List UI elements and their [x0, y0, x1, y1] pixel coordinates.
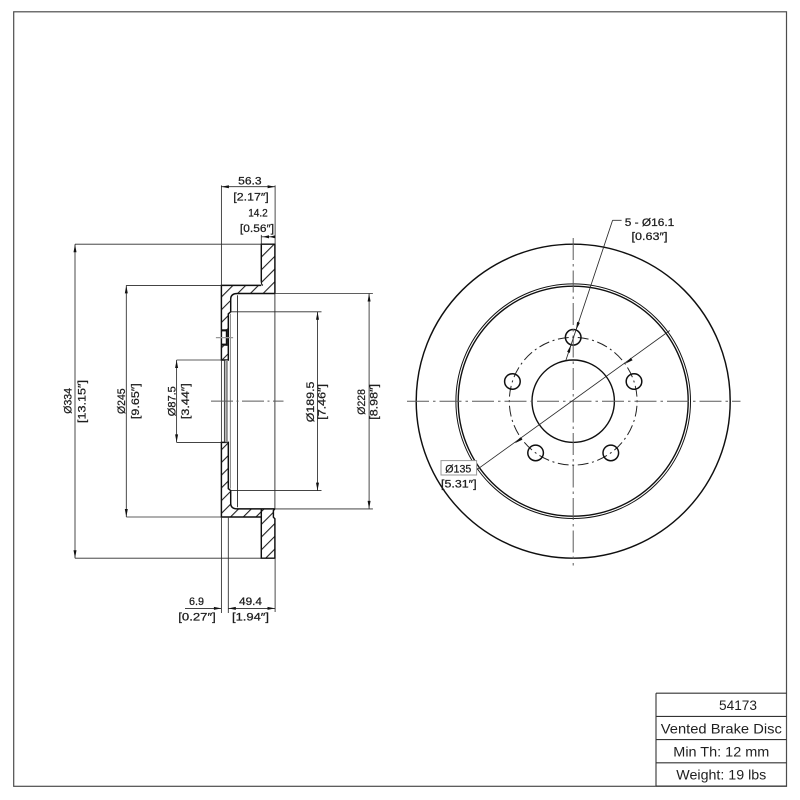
ring circle D228 inner [458, 286, 688, 516]
bolt circle D135 dashed [509, 337, 637, 465]
svg-text:49.4: 49.4 [239, 596, 262, 608]
hatched friction ring bottom section [261, 509, 275, 558]
dim text D245 rotated [116, 383, 142, 419]
lug hole bottom-left [528, 445, 544, 461]
dim text D189.5 rotated [305, 382, 329, 423]
svg-text:Ø228: Ø228 [356, 389, 368, 415]
dimension line D189.5 [317, 312, 319, 491]
dim text D334 rotated [62, 380, 88, 423]
section horizontal centerline [211, 400, 284, 402]
outer circle D334 [416, 244, 730, 558]
svg-text:[0.63″]: [0.63″] [632, 231, 668, 243]
dimension line D245 [125, 285, 127, 517]
svg-text:Min Th: 12 mm: Min Th: 12 mm [673, 744, 769, 760]
part outline: hat bottom (mirror) [221, 442, 275, 517]
dimension line 14.2 [261, 236, 275, 238]
extension line y=558.2 bottom to left dim [75, 557, 261, 559]
svg-text:14.2: 14.2 [248, 207, 268, 219]
dim text D87.5 rotated [166, 383, 192, 419]
svg-text:[3.44″]: [3.44″] [180, 383, 192, 419]
D135 diagonal dimension line [476, 331, 670, 471]
svg-text:[0.27″]: [0.27″] [178, 612, 216, 624]
part outline: ring bottom section (with face notch) [273, 510, 276, 519]
svg-text:Ø245: Ø245 [116, 388, 128, 414]
hatched hat shoulder and flange top [221, 285, 261, 360]
title block text [661, 697, 782, 783]
svg-text:Ø189.5: Ø189.5 [305, 382, 317, 423]
svg-text:[8.98″]: [8.98″] [368, 384, 380, 420]
interior visible edge (hat inside corner) [237, 295, 239, 507]
center bore circle D87.5 [532, 360, 614, 442]
ring circle D245 outer [456, 284, 691, 519]
lug hole centerline [216, 337, 233, 339]
dim text 56.3 [233, 175, 274, 235]
dim text 6.9 / 49.4 [178, 596, 269, 624]
svg-text:56.3: 56.3 [238, 175, 262, 187]
svg-text:[13.15″]: [13.15″] [77, 380, 89, 423]
lug hole right [626, 374, 642, 390]
extension line y=244.2 top to left dim [75, 243, 261, 245]
svg-text:[2.17″]: [2.17″] [233, 192, 268, 204]
svg-text:Vented Brake Disc: Vented Brake Disc [661, 720, 782, 736]
dimension line D87.5 [176, 360, 178, 442]
extension line outboard face x=275.1 top and bottom [274, 185, 276, 244]
extension line x=261.3 above ring for 14.2 [260, 235, 262, 244]
bore chamfer edge line [223, 360, 225, 442]
dimension line 49.4 [228, 607, 275, 609]
svg-text:Ø87.5: Ø87.5 [166, 386, 178, 416]
part outline: hat top (face, shoulder, bore edge, inner wall) [221, 285, 275, 360]
svg-text:Ø334: Ø334 [62, 388, 74, 414]
lug hole top [565, 330, 581, 346]
extension line flange inboard x=228.3 to bottom dim [227, 517, 229, 613]
lug bolt hole in section (white gap + thick edges) [222, 329, 228, 345]
small step at ring/shoulder top junction [261, 282, 263, 286]
dimension line 6.9 [185, 607, 221, 609]
lug hole left [505, 374, 521, 390]
extension line y=360 to dim 87.5 [177, 359, 222, 361]
dimension line D334 [74, 244, 76, 558]
svg-text:[9.65″]: [9.65″] [130, 383, 142, 419]
part outline: ring top section [261, 244, 275, 293]
svg-text:[0.56″]: [0.56″] [240, 223, 274, 235]
svg-text:[1.94″]: [1.94″] [232, 612, 269, 624]
svg-text:Ø135: Ø135 [445, 463, 471, 475]
faint inner edge (wall-to-flange chamfer silhouette) [229, 314, 231, 489]
hatched hat shoulder and flange bottom [221, 442, 261, 517]
bore silhouette gray band [225, 360, 227, 442]
vertical centerline [572, 238, 574, 566]
lug hole bottom-right [603, 445, 619, 461]
outboard face silhouette between ring halves [274, 294, 276, 509]
svg-text:[5.31″]: [5.31″] [441, 479, 477, 491]
dimension line D228 [368, 294, 370, 509]
dimension line 56.3 [221, 186, 275, 188]
extension line y=285.4 to dim 245 [126, 284, 221, 286]
svg-text:Weight: 19 lbs: Weight: 19 lbs [676, 767, 766, 783]
extension line left at hat face x=221.4 [220, 185, 222, 285]
horizontal centerline [407, 400, 741, 402]
svg-text:5 - Ø16.1: 5 - Ø16.1 [625, 217, 675, 229]
leader line 5-D16.1 [613, 219, 622, 221]
hatched friction ring top section [261, 244, 275, 293]
svg-text:[7.46″]: [7.46″] [317, 384, 329, 420]
extension line y=311.8 to dim 189.5 [231, 311, 322, 313]
dim text D228 rotated [356, 384, 380, 420]
svg-text:54173: 54173 [719, 697, 757, 713]
D135 boxed label [441, 461, 477, 475]
extension line y=293.5 to dim 228 [275, 293, 373, 295]
svg-text:6.9: 6.9 [189, 596, 204, 608]
